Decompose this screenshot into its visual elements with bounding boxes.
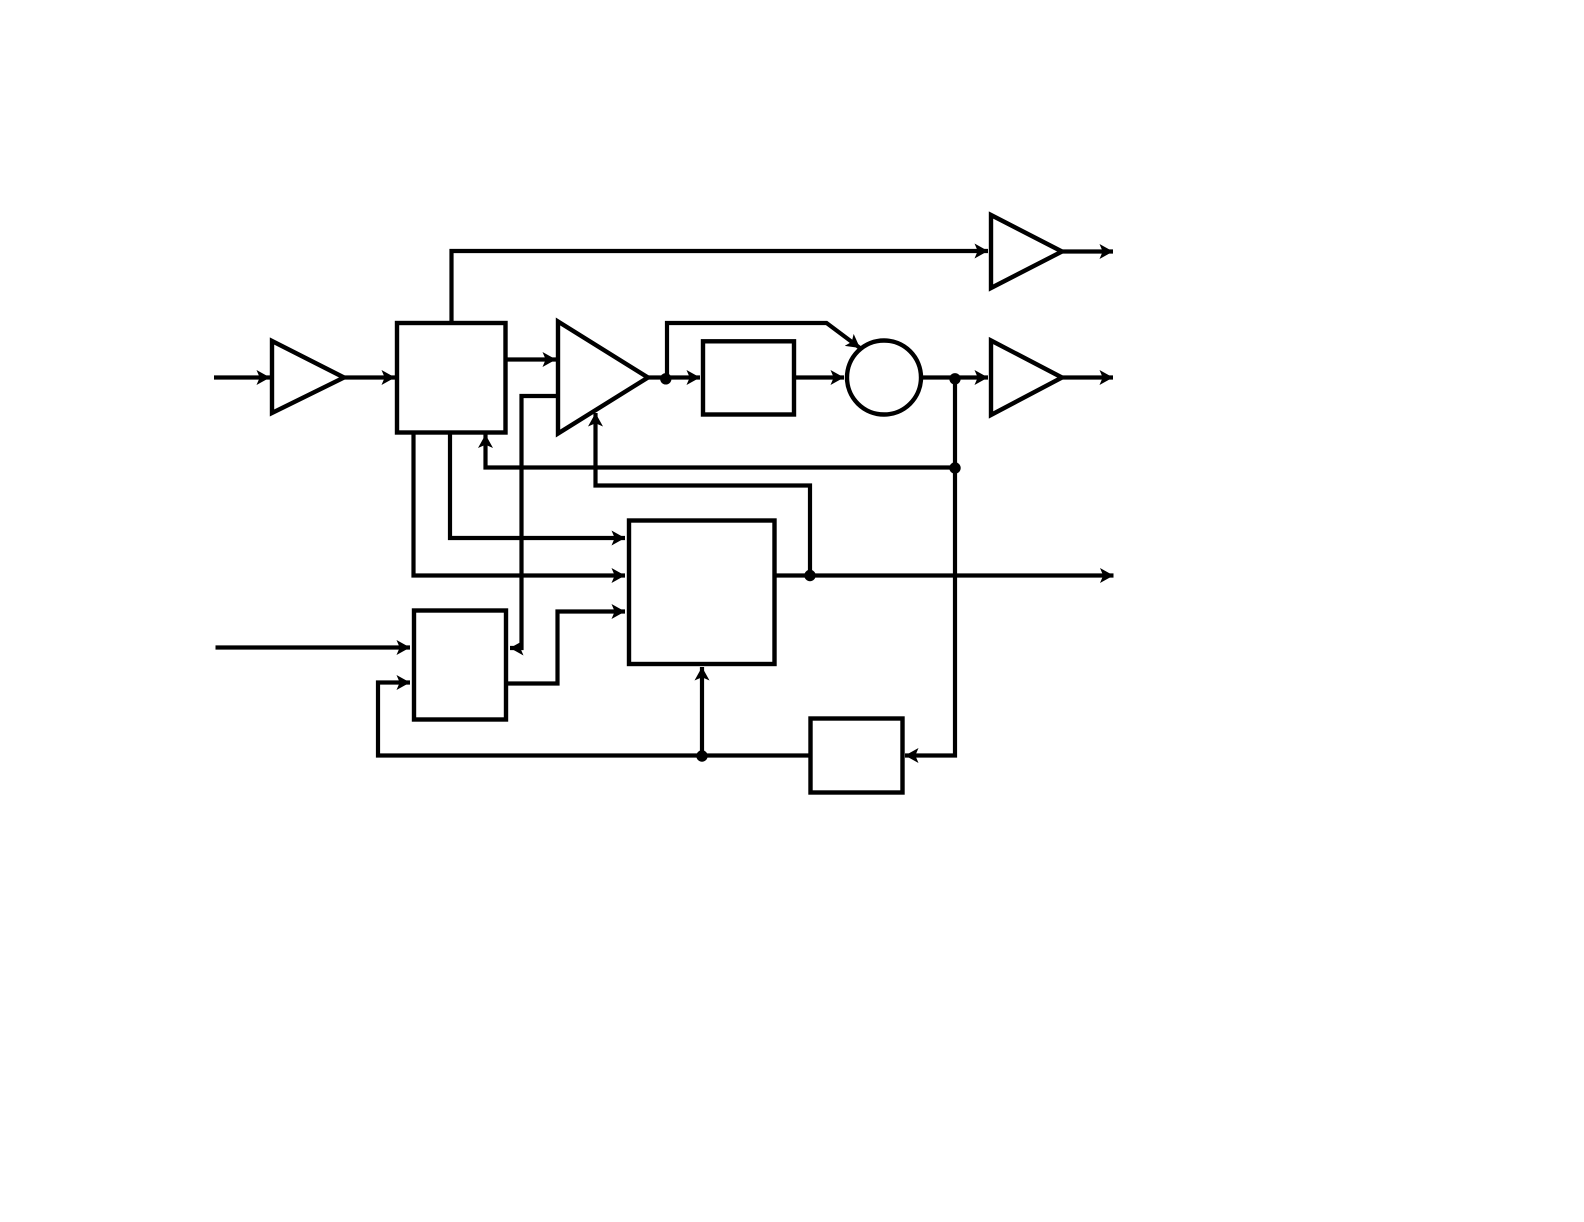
node: junction dot at A3 output xyxy=(660,373,671,384)
node: junction dot at S1 output xyxy=(949,373,960,384)
block B4 (small left block) xyxy=(414,611,506,720)
wire: A3 output to block B2 xyxy=(648,375,700,379)
wire: S1 output to buffer A4 xyxy=(921,375,988,379)
wire: B1 right output to amplifier A3 xyxy=(506,357,557,361)
wire: B1 bottom tap down and right to B3 input 2 xyxy=(414,433,626,576)
wire: feedback from B3 output node up and left into A3 bottom xyxy=(596,413,811,576)
wire: feedback trunk from S1 output node down then left into block B5 xyxy=(905,378,955,756)
summer S1 (circle) xyxy=(847,341,921,415)
buffer A4 (lower output triangle) xyxy=(991,341,1062,416)
block B3 (large lower square block) xyxy=(629,521,775,665)
wire: B4 right output up into B3 input 3 xyxy=(506,612,625,684)
buffer A2 (top output triangle) xyxy=(991,215,1062,288)
buffer A1 (input triangle) xyxy=(272,341,344,413)
wire: B1 top tap up and right to output buffer A2 xyxy=(452,251,989,323)
block B1 (main square block) xyxy=(397,323,506,433)
wire: bypass from A3 output node over B2 into summer S1 xyxy=(667,323,860,378)
block B2 (small rectangle) xyxy=(703,341,794,414)
wire: A1 output to block B1 xyxy=(344,375,395,379)
node: junction dot on bottom feedback xyxy=(696,750,707,761)
wire: B3 output long line right xyxy=(775,573,1114,577)
wire: from bottom feedback node up into B3 bottom xyxy=(700,667,704,756)
node: junction dot on B3 output xyxy=(804,570,815,581)
block B5 (small right block) xyxy=(811,719,903,793)
wire: B2 output into summer S1 xyxy=(794,375,844,379)
wire: primary input line into buffer A1 xyxy=(214,375,270,379)
wire: A4 output arrow xyxy=(1062,375,1113,379)
wire: A2 output arrow xyxy=(1062,249,1113,253)
node: junction dot on feedback trunk xyxy=(949,462,960,473)
amplifier A3 (large triangle) xyxy=(558,322,648,434)
wire: feedback from trunk node left and up into B1 bottom xyxy=(486,435,956,468)
wire: B1 bottom tap down and right to B3 input 1 xyxy=(450,433,625,539)
wire: bottom feedback from B5 left side to B4 left input xyxy=(378,683,811,756)
wire: tap from A3 input side down into B4 right side xyxy=(510,396,558,648)
wire: long input line into block B4 xyxy=(216,645,411,649)
